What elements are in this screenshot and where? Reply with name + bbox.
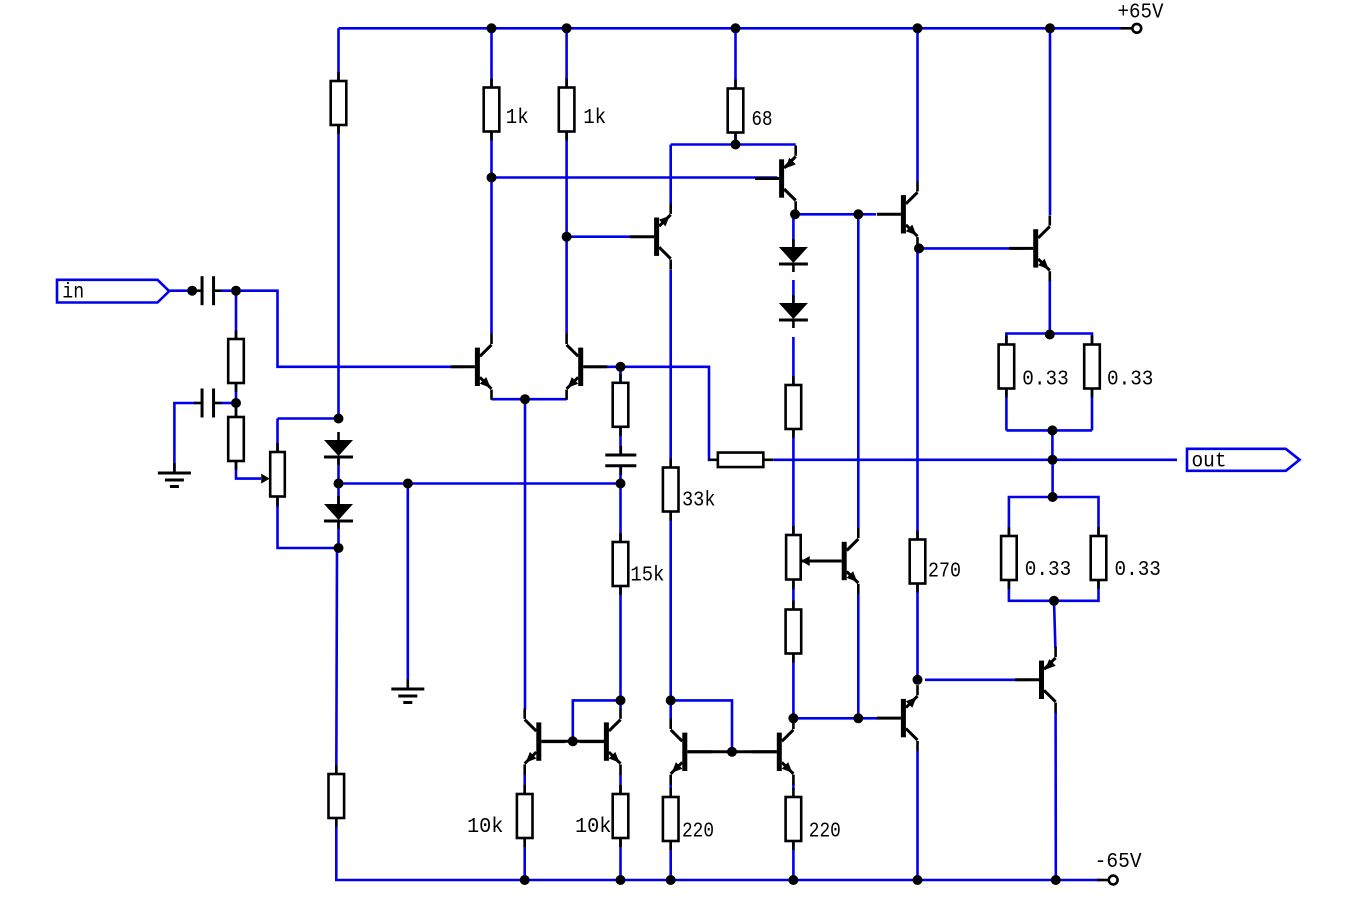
wire Q3 base from 1k R2 (567, 235, 631, 238)
node 1k1-base (487, 173, 497, 183)
terminal +65V (1121, 24, 1141, 33)
capacitor C1 input (194, 276, 222, 305)
capacitor C2 (194, 389, 222, 418)
wire 33k to mirror2 (669, 512, 672, 719)
wire 15k to mirror1 (619, 586, 622, 709)
wire D4 to R220b (792, 337, 795, 385)
wire bias chain below D2 (337, 521, 340, 548)
ground mid (391, 679, 424, 703)
wire 68R bottom node (671, 143, 796, 146)
node rail-68 (731, 23, 741, 33)
wire driver2 collector link (916, 585, 919, 676)
wire R2 bottom to wiper (236, 460, 261, 479)
resistor Q2 base 383 (613, 374, 629, 436)
wire lower base line (793, 717, 877, 720)
wire lower output base (925, 678, 1028, 681)
node pair1 bottom (1047, 425, 1057, 435)
wire pair1 right lower lead (1091, 389, 1094, 431)
diode D2 (324, 496, 353, 529)
wire pair1 top rail (1006, 334, 1092, 345)
node driver-outputbase (914, 243, 924, 253)
node spreader-lowerbase (853, 713, 863, 723)
wire ground tap (406, 484, 409, 680)
transistor Q1 LTP left (451, 334, 492, 400)
svg-text:33k: 33k (682, 489, 716, 512)
wire pair2 top rail (1009, 497, 1099, 536)
wire 10k-2 to rail (619, 838, 622, 880)
transistor Q9 driver lower (877, 685, 918, 751)
wire 220-1 to rail (669, 841, 672, 880)
resistor 0.33 p2 left (1001, 527, 1017, 589)
svg-text:10k: 10k (467, 816, 503, 839)
node rail2-220b (788, 875, 798, 885)
node bias top (334, 414, 344, 424)
transistor Q4 cascode PNP (755, 146, 796, 212)
svg-text:15k: 15k (630, 564, 664, 587)
node rail2-10k1 (520, 875, 530, 885)
svg-text:0.33: 0.33 (1025, 559, 1071, 582)
wire pair2 bottom rail (1009, 579, 1099, 601)
wire pot link top (278, 417, 339, 420)
resistor feedback (709, 453, 774, 468)
wire 220-2 to rail (792, 841, 795, 880)
transistor Q8 bottom output (1015, 647, 1056, 713)
node bias mid (334, 479, 344, 489)
node cap-base (231, 286, 241, 296)
wire +65V rail (339, 27, 1122, 30)
wire mirror2 right emitter to 220 (792, 783, 795, 790)
resistor 0.33 p2 right (1091, 527, 1107, 589)
node driver2-collector (913, 675, 923, 685)
transistor Q6 VBE multiplier (818, 528, 859, 594)
wire 1k R1 column (490, 28, 493, 177)
node mirror2 collector (666, 695, 676, 705)
port in (57, 280, 169, 305)
wire out to pair2 (1051, 460, 1054, 497)
wire mirror1 left emitter to 10k (523, 774, 526, 794)
resistor 1k right (559, 79, 575, 141)
wire driver2 emitter down (916, 751, 919, 880)
wire 1k R2 column (565, 28, 568, 236)
wire top output emitter (1049, 279, 1052, 335)
wire Rb2 to mirror2 node (792, 654, 795, 718)
transistor Q2 LTP right (567, 334, 608, 400)
node pair1 top (1045, 330, 1055, 340)
wire upper driver emitter to output base (919, 247, 1026, 250)
node Q2 base (616, 362, 626, 372)
node rail-output (1045, 23, 1055, 33)
resistor 0.33 p1 right (1084, 336, 1100, 398)
wire VAS out node (795, 213, 876, 216)
svg-text:0.33: 0.33 (1022, 369, 1068, 392)
resistor input bias lower (228, 408, 244, 470)
terminal -65V (1097, 876, 1117, 885)
wire pot bottom link (278, 496, 339, 548)
wire top output collector column (1049, 28, 1052, 215)
diode D3 (779, 239, 808, 272)
wire Q3 emitter up (669, 145, 672, 205)
wire input R column (235, 291, 238, 339)
resistor bias lower (786, 601, 802, 663)
wire in port to cap (169, 289, 196, 292)
wire 10k-1 to rail (523, 838, 526, 880)
svg-text:out: out (1192, 451, 1227, 474)
transistor Q12 mirror2 left (671, 719, 712, 785)
wire spreader base (802, 560, 831, 563)
wire pair1 to out (1051, 430, 1054, 459)
wire cap2 right to node (221, 402, 237, 405)
wire cap3 to 15k (619, 467, 622, 542)
node LTP tail (520, 394, 530, 404)
resistor left 338 top (331, 72, 347, 134)
resistor 15k (613, 533, 629, 595)
wire pair1 bottom rail (1006, 429, 1092, 432)
wire node366 to Rfb (621, 367, 712, 460)
wire 270R column (916, 246, 919, 540)
svg-text:220: 220 (809, 821, 841, 844)
wire out line (774, 458, 1178, 461)
wire left column top (rail to bias chain) (337, 28, 340, 418)
node rail2-output (1051, 875, 1061, 885)
wire input R2 link (235, 383, 238, 417)
node ground tap (403, 479, 413, 489)
wire mirror2 base link (688, 750, 777, 753)
resistor bias 385 (786, 376, 802, 438)
node pair2 bottom (1049, 596, 1059, 606)
svg-text:+65V: +65V (1118, 1, 1164, 24)
wire cap2 left to ground (174, 403, 196, 472)
transistor Q10 mirror1 left (525, 709, 566, 775)
svg-text:1k: 1k (506, 107, 529, 130)
resistor input bias upper (228, 330, 244, 392)
node out (1048, 455, 1058, 465)
wire mirror1 right emitter to 10k (619, 774, 622, 794)
node pair2 top (1048, 492, 1058, 502)
wire D3-D4 link (792, 280, 795, 303)
resistor 33k (663, 459, 679, 521)
resistor 220 right (786, 788, 802, 850)
node in-cap (187, 286, 197, 296)
resistor left 338 bottom (329, 765, 345, 827)
svg-text:1k: 1k (583, 107, 606, 130)
resistor 0.33 p1 left (999, 336, 1015, 398)
diode D1 (324, 432, 353, 465)
node mirror1 collector (616, 695, 626, 705)
wire Q3 collector to 33k (669, 270, 672, 468)
wire bias column upper (857, 214, 860, 529)
node rail-1k1 (487, 23, 497, 33)
node 1k2-base (562, 232, 572, 242)
resistor 10k left (517, 785, 533, 847)
svg-text:220: 220 (682, 821, 714, 844)
wire mirror2 base overwire (671, 700, 732, 751)
wire mirror2 left emitter to 220 (669, 783, 672, 790)
wire pair1 left lower lead (1005, 389, 1008, 431)
wire diode chain link (792, 214, 795, 247)
node VAS-bias (853, 209, 863, 219)
node rail2-10k2 (616, 875, 626, 885)
wire 68R column (734, 28, 737, 144)
node 68 bottom (731, 140, 741, 150)
port out (1187, 449, 1300, 474)
svg-text:68: 68 (752, 109, 773, 132)
wire cap1 to LTP base (221, 291, 463, 367)
wire mirror1 base overwire (573, 700, 621, 741)
resistor 270 (910, 531, 926, 593)
svg-text:270: 270 (928, 560, 961, 583)
transistor Q7 top output (1009, 215, 1050, 281)
transistor Q5 upper driver (877, 181, 918, 247)
wire Q4 base from 1k R1 (492, 176, 778, 179)
wire Q2 collector column (565, 237, 568, 334)
resistor 10k right (613, 785, 629, 847)
wire bias tap to cap3 node (339, 482, 621, 485)
wire lower output collector (1054, 712, 1057, 880)
wire pair2 to lower output emitter (1054, 601, 1055, 648)
transistor Q13 mirror2 right (753, 719, 794, 785)
node mirror2 base (727, 747, 737, 757)
wire tail to mirror1 (524, 399, 527, 710)
node cap3 bias (616, 479, 626, 489)
svg-text:10k: 10k (575, 816, 611, 839)
resistor 220 left (663, 788, 679, 850)
transistor Q11 mirror1 right (580, 709, 621, 775)
wire upper driver collector column (916, 28, 919, 181)
wire pot top to bias chain (276, 419, 279, 453)
wire Q2 base to R node (586, 365, 621, 368)
trimmer input pot (261, 443, 285, 507)
resistor 1k left (484, 79, 500, 141)
wire bias chain D1-D2 (337, 459, 340, 504)
wire Rb to trimmer2 (792, 429, 795, 535)
resistor 68 (728, 80, 744, 142)
node VAS out (790, 209, 800, 219)
svg-text:0.33: 0.33 (1115, 559, 1161, 582)
wire left column bottom (336, 548, 1100, 880)
svg-text:0.33: 0.33 (1107, 369, 1153, 392)
trimmer bias spreader (786, 526, 810, 590)
transistor Q3 VAS (630, 204, 671, 270)
wire LTP tail (492, 398, 567, 401)
ground input network (158, 463, 191, 487)
wire spreader emitter down (857, 593, 860, 718)
svg-text:in: in (62, 282, 84, 305)
node rail2-220a (666, 875, 676, 885)
node rail-1k2 (562, 23, 572, 33)
wire trimmer2 to Rb2 (792, 580, 795, 610)
wire R-621 to cap3 (619, 367, 622, 454)
node rail-driver (913, 23, 923, 33)
node mirror1 base (568, 736, 578, 746)
node input divider (231, 398, 241, 408)
node bias bottom (334, 543, 344, 553)
wire Q1 collector down (490, 178, 493, 335)
svg-text:-65V: -65V (1095, 851, 1142, 874)
diode D4 (779, 295, 808, 328)
node bias-lowerbase (788, 713, 798, 723)
capacitor C3 (605, 446, 636, 475)
node rail2-driver2 (913, 875, 923, 885)
wire mirror1 base link (542, 740, 604, 743)
